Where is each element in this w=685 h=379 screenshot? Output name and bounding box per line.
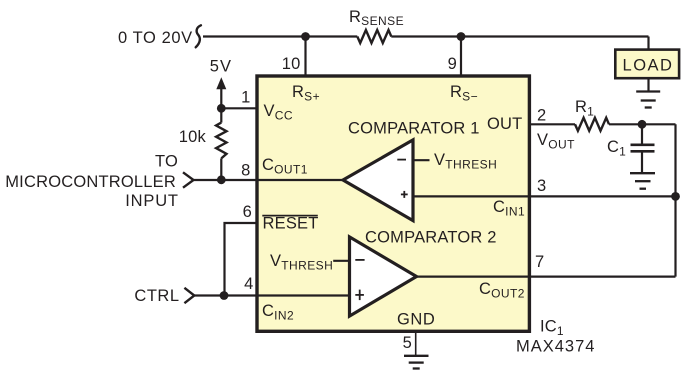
resistor RSENSE <box>357 30 391 43</box>
op-amp comparator 1 <box>343 140 413 221</box>
IC IC1 MAX4374 body <box>257 76 529 331</box>
ground under pin5 <box>404 356 429 369</box>
LOAD box <box>615 50 679 79</box>
svg-text:MICROCONTROLLER: MICROCONTROLLER <box>5 173 176 191</box>
node junction dot pin3 net <box>671 192 680 201</box>
svg-text:2: 2 <box>537 107 546 125</box>
svg-text:OUT: OUT <box>487 115 522 133</box>
node junction dot at RS+ tap <box>301 32 310 41</box>
input connector chevron CTRL <box>184 288 194 303</box>
svg-text:4: 4 <box>244 275 253 293</box>
svg-text:8: 8 <box>241 162 250 180</box>
svg-text:0 TO 20V: 0 TO 20V <box>118 29 193 47</box>
node junction dot at MCU line <box>217 175 226 184</box>
node junction dot at RS- tap <box>457 32 466 41</box>
wire top rail left segment <box>203 35 357 37</box>
svg-text:RESET: RESET <box>263 215 319 233</box>
node junction dot at CTRL/RESET <box>220 291 229 300</box>
svg-text:TO: TO <box>155 153 178 171</box>
resistor R1 <box>575 118 609 131</box>
5V supply arrow <box>216 77 226 89</box>
wire pin5 GND stub <box>415 331 417 356</box>
svg-text:GND: GND <box>397 311 435 329</box>
svg-text:6: 6 <box>243 203 252 221</box>
wire comparator2 output / pin7 COUT2 <box>417 276 676 278</box>
wire pin1 VCC <box>221 107 258 109</box>
capacitor C1 <box>641 124 643 144</box>
wire pin4 CIN2 to comparator2 plus <box>194 294 349 296</box>
wire LOAD ground stub <box>647 78 649 92</box>
comparator 1 plus sign <box>401 193 408 195</box>
svg-text:7: 7 <box>535 253 544 271</box>
svg-text:COMPARATOR 1: COMPARATOR 1 <box>348 120 480 138</box>
svg-text:5: 5 <box>403 334 412 352</box>
node junction dot at R1/C1 <box>638 120 647 129</box>
wire pin8 COUT1 <box>194 179 345 181</box>
op-amp comparator 2 <box>350 237 417 316</box>
svg-text:LOAD: LOAD <box>623 57 674 75</box>
wire pin9 drop <box>460 37 462 78</box>
ground under LOAD <box>636 92 660 108</box>
svg-text:MAX4374: MAX4374 <box>516 338 595 356</box>
comparator 1 minus sign <box>397 159 406 161</box>
wire comparator2 inverting stub <box>333 260 349 262</box>
svg-text:CTRL: CTRL <box>134 287 179 305</box>
wire comparator1 inverting stub <box>413 159 430 161</box>
wire pin2 OUT left segment <box>531 123 575 125</box>
svg-text:1: 1 <box>241 89 250 107</box>
input connector chevron MCU <box>183 172 194 187</box>
wire pin2 OUT right segment <box>609 123 676 125</box>
svg-text:5V: 5V <box>210 58 232 76</box>
svg-text:COMPARATOR 2: COMPARATOR 2 <box>365 229 497 247</box>
wire to LOAD <box>647 37 649 51</box>
node junction dot at VCC/10k <box>217 104 226 113</box>
comparator 2 minus sign <box>355 259 364 261</box>
svg-text:INPUT: INPUT <box>125 192 179 210</box>
svg-text:10k: 10k <box>179 128 207 146</box>
wire comparator1 plus input / pin3 CIN1 <box>413 195 676 197</box>
wire right vertical feedback <box>674 124 676 276</box>
wire pin10 drop <box>304 37 306 78</box>
resistor 10k <box>220 108 222 122</box>
svg-text:9: 9 <box>448 55 457 73</box>
comparator 2 plus sign <box>355 294 364 296</box>
ground under C1 <box>630 173 655 189</box>
supply break symbol <box>196 25 201 47</box>
svg-text:10: 10 <box>282 55 301 73</box>
svg-text:3: 3 <box>537 177 546 195</box>
wire pin6 RESET <box>225 223 259 296</box>
wire top rail right segment <box>391 35 648 37</box>
